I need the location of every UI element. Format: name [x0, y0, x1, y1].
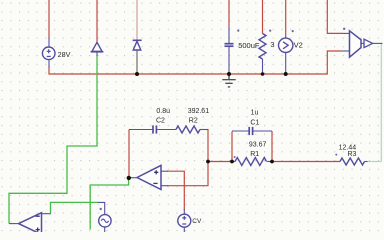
- svg-text:CV: CV: [192, 218, 202, 225]
- svg-text:0.8u: 0.8u: [156, 108, 170, 115]
- svg-text:V2: V2: [294, 40, 303, 49]
- svg-text:R2: R2: [189, 118, 198, 125]
- svg-text:C1: C1: [250, 119, 259, 126]
- svg-text:28V: 28V: [58, 50, 71, 59]
- svg-text:R3: R3: [348, 151, 357, 158]
- svg-text:500uF: 500uF: [238, 41, 260, 50]
- svg-text:392.61: 392.61: [188, 108, 210, 115]
- svg-text:1u: 1u: [251, 110, 259, 117]
- svg-text:3: 3: [270, 40, 274, 49]
- svg-text:93.67: 93.67: [249, 141, 267, 148]
- svg-text:C2: C2: [156, 118, 165, 125]
- svg-text:R1: R1: [250, 151, 259, 158]
